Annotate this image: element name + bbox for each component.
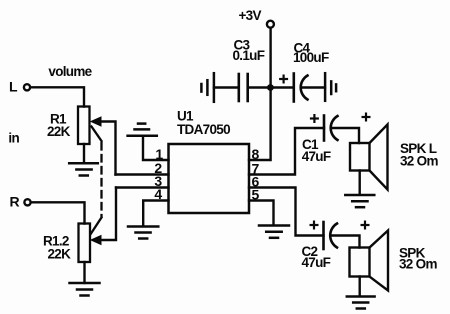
wire speaker 2 to ground [359,277,361,297]
plus sign C2 left [311,222,318,229]
label SPK 32 Om [399,246,437,272]
wire L input to R1 top [31,87,84,106]
plus sign speaker 2 [362,222,369,229]
speaker SPK driver [350,248,370,277]
svg-text:+3V: +3V [239,8,262,23]
pin 5 wire [249,201,274,226]
svg-text:L: L [9,79,18,95]
terminal +3V [267,21,274,28]
svg-text:32 Om: 32 Om [400,154,438,169]
potentiometer R1 body [78,107,90,145]
terminal L [24,84,30,90]
label SPK L 32 Om [400,141,438,169]
label R1 22K [47,112,71,140]
svg-text:5: 5 [252,186,260,202]
ground below speaker 2 [347,297,375,309]
pin number 4 [154,186,162,202]
svg-text:47uF: 47uF [302,149,331,164]
plus sign C1 left [311,115,318,122]
pin 3 wire [116,186,169,188]
svg-text:32 Om: 32 Om [399,257,437,272]
capacitor C3 [239,74,248,101]
label C2 47uF [302,244,331,270]
pin number 1 [155,146,163,162]
label R [10,194,20,210]
svg-text:volume: volume [48,64,92,79]
svg-text:22K: 22K [47,124,71,139]
svg-text:4: 4 [154,186,162,202]
svg-text:R: R [10,194,20,210]
wire speaker 1 to ground [359,171,361,195]
ground below R1.2 [70,283,100,296]
IC U1 body [169,144,250,213]
capacitor C4 polarized [294,74,308,102]
wiper arrow R1.2 [91,188,116,245]
plus sign C4 [280,76,287,83]
speaker SPK L cone [370,125,388,190]
pin number 2 [154,160,162,176]
pin number 5 [252,186,260,202]
pin number 8 [252,146,260,162]
plus sign speaker 1 [363,114,370,121]
label L [9,79,18,95]
pin number 3 [154,173,162,189]
wire ground to C3 [214,86,238,88]
pin 6 wire [249,188,324,236]
pin 7 wire [249,128,324,175]
pin 8 wire [249,88,271,161]
svg-text:100uF: 100uF [293,50,329,65]
potentiometer R1.2 body [79,224,91,263]
ground above pin 1 (inverted) [128,124,157,136]
ground below pin 4 [128,227,158,239]
sideways ground left of C3 [201,73,214,102]
wire +3V down to rail [269,29,271,88]
ground below speaker 1 [345,195,374,207]
label C1 47uF [302,137,331,164]
label R1.2 22K [43,234,71,262]
ground below pin 5 [259,226,289,238]
speaker SPK cone [370,231,389,291]
pin number 6 [252,173,260,189]
label C3 0.1uF [233,38,265,64]
svg-text:in: in [8,130,19,145]
junction dot supply node [267,84,274,91]
wire R1 bottom to ground [83,144,85,163]
label C4 100uF [293,40,329,65]
label U1 TDA7050 [177,109,230,137]
wire C3 to C4 through junction [249,86,293,88]
wire C1 to speaker 1 [331,128,359,143]
label +3V [239,8,262,23]
sideways ground right of C4 [325,73,336,101]
pin 1 wire [143,137,169,161]
svg-text:47uF: 47uF [302,255,331,270]
svg-text:0.1uF: 0.1uF [233,48,265,63]
capacitor C1 polarized [324,116,338,141]
terminal R [24,199,30,205]
pin number 7 [252,160,260,176]
wire R input to R1.2 top [32,202,85,223]
pin 4 wire [143,201,168,227]
wire R1.2 bottom to ground [83,262,85,283]
mechanical coupling dashed link [91,127,102,234]
wire C2 to speaker 2 [331,236,360,248]
label in [8,130,19,145]
label volume [48,64,92,79]
wire C4 to right ground [302,86,326,88]
speaker SPK L driver [350,143,370,171]
capacitor C2 polarized [324,222,338,249]
wiper arrow R1 [91,117,116,175]
svg-text:22K: 22K [48,247,72,262]
svg-text:TDA7050: TDA7050 [177,122,230,137]
ground below R1 [69,163,98,175]
pin 2 wire [116,173,169,175]
